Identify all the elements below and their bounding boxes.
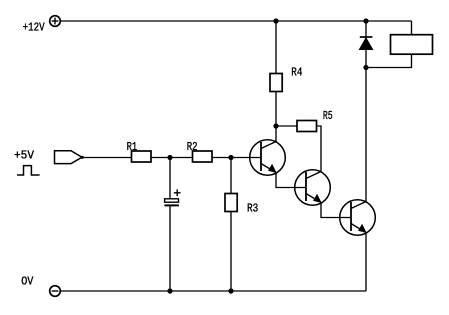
junction top rail / diode: [363, 18, 368, 23]
capacitor C1: [164, 189, 180, 205]
wire R2 to Q1 base: [212, 157, 261, 159]
transistor Q1: [250, 140, 286, 176]
svg-text:OV: OV: [21, 274, 34, 288]
wire bottom rail: [60, 290, 366, 292]
wire C1 top lead: [169, 158, 171, 199]
resistor R2: [193, 151, 213, 162]
input connector +5V: [55, 151, 83, 164]
wire R3 top lead: [230, 158, 232, 194]
resistor R5: [297, 121, 317, 132]
wire Q2 emitter to Q3 base: [321, 203, 352, 218]
junction R3 top: [228, 155, 233, 160]
wire relay bottom: [366, 54, 412, 67]
wire input to R1: [82, 157, 132, 159]
wire R4 top: [275, 21, 277, 74]
junction C1 bottom: [167, 288, 172, 293]
wire Q1 emitter to Q2 base: [276, 173, 307, 188]
resistor R1: [132, 151, 152, 162]
junction top rail / R4: [273, 18, 278, 23]
terminal +12V: [50, 16, 61, 27]
wire C1 bottom lead: [169, 205, 171, 291]
svg-text:R5: R5: [323, 109, 333, 123]
relay RL1: [391, 35, 433, 55]
svg-text:+12V: +12V: [23, 20, 46, 34]
junction diode bottom / Q3 collector / relay: [363, 65, 368, 70]
junction R3 bottom: [228, 288, 233, 293]
junction R4 / R5 / Q1 collector: [273, 123, 278, 128]
diode D1: [359, 21, 372, 68]
transistor Q2: [295, 170, 331, 206]
wire Q3 emitter: [365, 233, 367, 291]
transistor Q3: [340, 200, 376, 236]
svg-text:R3: R3: [247, 202, 258, 216]
wire Q1 collector: [275, 126, 277, 143]
wire top rail: [60, 20, 412, 22]
svg-text:R2: R2: [187, 140, 198, 154]
wire R1 to R2: [151, 157, 193, 159]
wire Q3 collector: [365, 68, 367, 203]
wire relay top: [411, 21, 413, 35]
wire junction to R5: [276, 125, 297, 127]
terminal 0V: [50, 286, 61, 297]
wire R4 bottom: [275, 92, 277, 127]
wire R5 to Q2 collector: [317, 126, 322, 172]
junction C1 top: [167, 155, 172, 160]
resistor R4: [270, 74, 282, 92]
svg-text:R4: R4: [291, 66, 302, 80]
svg-text:+5V: +5V: [14, 149, 35, 163]
svg-text:R1: R1: [127, 140, 138, 154]
resistor R3: [225, 194, 237, 212]
wire R3 bottom lead: [230, 212, 232, 292]
pulse symbol: [17, 166, 40, 175]
